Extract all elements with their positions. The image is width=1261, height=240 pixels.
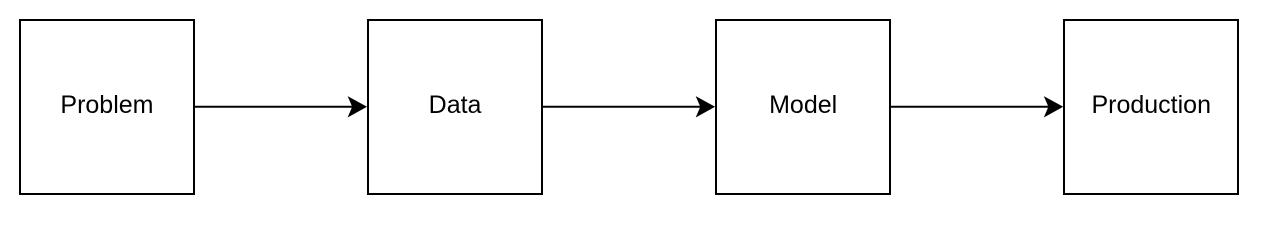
arrow Data to Model (wire) — [542, 96, 715, 117]
box Production — [1063, 19, 1239, 195]
box Problem — [19, 19, 195, 195]
arrow Problem to Data (wire) — [194, 96, 367, 117]
box Model — [715, 19, 891, 195]
box Data — [367, 19, 543, 195]
arrow Model to Production (wire) — [890, 96, 1063, 117]
